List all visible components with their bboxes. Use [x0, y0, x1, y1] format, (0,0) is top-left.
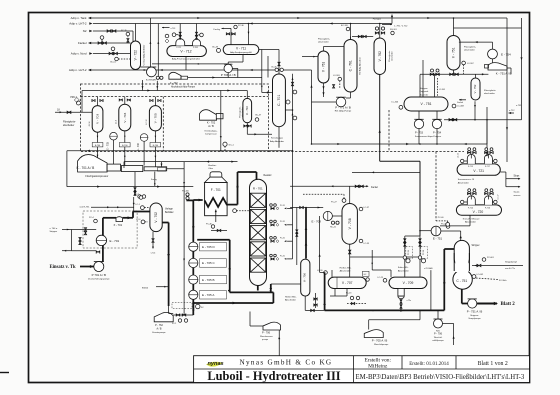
svg-text:Adip v. LHT-2: Adip v. LHT-2 [69, 22, 87, 26]
svg-text:Fackig: Fackig [214, 29, 221, 31]
svg-text:LC-30: LC-30 [317, 270, 323, 272]
compressor K-702 A/B [200, 110, 217, 121]
instrument LC-1 [141, 206, 145, 210]
instrument LC-35 [359, 239, 363, 243]
instrument LC-002 [472, 275, 476, 279]
P-706 wires2 [437, 310, 439, 319]
svg-text:von E-77x: von E-77x [505, 268, 516, 270]
P-762 discharge with valves [173, 314, 193, 316]
pump F-707 hochdruck [169, 72, 181, 79]
vessel V-761 [318, 51, 329, 83]
pump P-706 waschwasser [263, 322, 281, 330]
P-705 wires [368, 320, 370, 330]
dashed boxes PC-39 PC-38 [406, 247, 413, 259]
E-754 wires [454, 27, 522, 29]
svg-text:Kalter MD-: Kalter MD- [398, 266, 409, 269]
FC-23 instruments [350, 296, 353, 299]
svg-text:Reaktor-: Reaktor- [208, 164, 217, 167]
exchanger E-701 [96, 235, 106, 245]
instrument EC-110 [346, 27, 350, 31]
C-701 overhead to riser [285, 109, 292, 111]
bold train outlet y303 [194, 302, 274, 304]
C-751 bottom bold [461, 289, 463, 303]
svg-text:PC-31: PC-31 [280, 238, 285, 240]
title block [194, 356, 530, 383]
svg-text:X - 701: X - 701 [114, 223, 123, 227]
reactor bottom bold [257, 286, 259, 291]
svg-text:Ref. Adip-Pumpe: Ref. Adip-Pumpe [335, 110, 352, 113]
vessel V-712 [167, 46, 207, 57]
svg-text:GC-46: GC-46 [271, 67, 276, 69]
svg-text:V - 752: V - 752 [473, 84, 477, 93]
svg-text:PC-35: PC-35 [121, 30, 128, 32]
suction header to K-701 [67, 150, 293, 152]
svg-text:HD Adip-Absorber: HD Adip-Absorber [359, 57, 362, 75]
svg-text:v.701 A/B: v.701 A/B [424, 267, 433, 270]
vessel V-710 separator [243, 98, 252, 122]
svg-text:Flüssigkeits-: Flüssigkeits- [63, 121, 76, 124]
svg-text:EC-120: EC-120 [341, 25, 349, 27]
svg-text:P - 706: P - 706 [434, 333, 443, 336]
instrument MC-101 [391, 31, 394, 34]
svg-text:Einsatz v. Tk: Einsatz v. Tk [50, 265, 76, 270]
svg-text:E0000: E0000 [142, 288, 149, 290]
E-751 inlet [420, 230, 431, 232]
V-761 wires [323, 47, 325, 52]
svg-text:Heißes MD-: Heißes MD- [340, 268, 352, 270]
letdown instruments [403, 256, 406, 259]
bold stub to V-706 feed [270, 284, 272, 292]
furnace burner [215, 210, 217, 213]
V-707 bottom outlets [334, 289, 336, 297]
V-710 bottom valves [244, 125, 247, 127]
C-701 bottom wire [278, 127, 280, 148]
exchanger E - 705 D [189, 242, 198, 251]
reactor level instrument [233, 209, 237, 213]
instrument PRC-1 [76, 101, 80, 105]
C-751 top wire [460, 236, 462, 239]
svg-text:A / B: A / B [156, 327, 161, 330]
pump P-771 A/B [336, 97, 346, 107]
pump P-762 A/B [154, 312, 173, 321]
cooler E-754 [488, 49, 498, 59]
E-751 to stripper [441, 230, 461, 232]
compressor skid bars [107, 164, 121, 171]
svg-text:Sauer-: Sauer- [514, 191, 521, 194]
V-751 top wire [453, 18, 455, 36]
svg-text:EM-BP3\Daten\BP3 Betrieb\VISIO: EM-BP3\Daten\BP3 Betrieb\VISIO-Fließbild… [356, 374, 525, 381]
quench feed riser [292, 74, 294, 259]
svg-text:LC-17: LC-17 [498, 195, 500, 200]
svg-text:V - 707: V - 707 [342, 281, 353, 285]
svg-text:Flüssigkeits-: Flüssigkeits- [388, 50, 391, 61]
dashed link GC-1 [269, 151, 465, 153]
C-761 wires [350, 24, 352, 40]
svg-text:F-716: F-716 [485, 207, 490, 209]
svg-text:LC-15: LC-15 [457, 153, 459, 158]
V-720 side instruments [461, 200, 464, 203]
bold effluent top y240 [197, 239, 230, 241]
V-707 internals [336, 277, 338, 288]
svg-text:V - 709: V - 709 [403, 281, 414, 285]
svg-text:E - 751: E - 751 [433, 237, 443, 241]
V-702 drain [152, 232, 154, 239]
instrument LC-37 [359, 207, 363, 211]
svg-text:F-717: F-717 [485, 166, 490, 168]
V-721 top valve stacks [468, 151, 471, 153]
svg-text:FC-30ch: FC-30ch [499, 280, 507, 282]
bold effluent bottom y292 [230, 291, 274, 293]
svg-text:Flüssigkeits-: Flüssigkeits- [318, 38, 330, 41]
svg-text:Adip-Absorber: Adip-Absorber [270, 140, 284, 143]
svg-text:PC-31: PC-31 [280, 205, 285, 207]
pump P-708 A/B [224, 64, 232, 72]
svg-text:abscheider: abscheider [318, 41, 329, 44]
V-720 top valve stacks [468, 192, 471, 194]
column C-761 [344, 40, 357, 93]
svg-text:LC-305: LC-305 [439, 89, 445, 91]
V-751h LC-308 [452, 104, 456, 108]
V-712 nozzle bumps [176, 39, 185, 46]
V-707 inlet [331, 270, 333, 277]
svg-text:LC-307: LC-307 [467, 63, 474, 65]
svg-text:V - 705: V - 705 [153, 113, 157, 123]
svg-text:Stripper-: Stripper- [420, 87, 428, 90]
svg-text:v. 704 n.: v. 704 n. [50, 228, 59, 230]
svg-text:V - 722: V - 722 [134, 50, 138, 61]
svg-text:von E-751: von E-751 [80, 207, 91, 209]
svg-text:Heißer MD-: Heißer MD- [285, 296, 297, 299]
svg-text:E - 704: E - 704 [137, 142, 140, 150]
exchanger E-703 [110, 132, 118, 140]
svg-text:auffüllpumpe: auffüllpumpe [432, 340, 444, 342]
svg-text:C - 701: C - 701 [277, 95, 281, 106]
svg-text:E - 705 D: E - 705 D [202, 245, 216, 249]
svg-text:abscheider: abscheider [484, 92, 495, 95]
V-751 outlet wires [418, 111, 420, 119]
svg-text:Waschwasser-: Waschwasser- [260, 336, 273, 338]
E-709 fittings [156, 76, 159, 79]
svg-text:Frischgaskompressor: Frischgaskompressor [85, 175, 108, 178]
svg-text:Kreis-Fl./ Wasser: Kreis-Fl./ Wasser [463, 217, 480, 220]
n712 return arrow [509, 112, 512, 114]
svg-text:Stripper: Stripper [50, 230, 58, 233]
E-751 instrument PC-40 [446, 223, 450, 227]
vessel V-706 [301, 259, 310, 296]
svg-text:Slops: Slops [514, 176, 521, 178]
svg-text:Kreislaufgas: Kreislaufgas [271, 137, 284, 140]
instrument PC-2 [139, 196, 143, 200]
svg-text:V - 706: V - 706 [302, 273, 306, 282]
svg-text:RG-101: RG-101 [390, 29, 397, 31]
crossover y172 [352, 171, 420, 173]
svg-text:F - 707: F - 707 [170, 82, 178, 85]
fuel gas valve [217, 229, 221, 231]
vessel V-704 [119, 104, 131, 131]
E-709 riser right [157, 24, 159, 77]
wires above C-701 [259, 49, 279, 51]
svg-text:Erstellt: 01.01.2014: Erstellt: 01.01.2014 [409, 362, 449, 367]
svg-text:R - 701: R - 701 [253, 187, 263, 191]
V-708 bottom wire [349, 244, 351, 277]
svg-text:P - 771 A / B: P - 771 A / B [335, 105, 351, 109]
dashed divider x163 [162, 97, 164, 152]
svg-text:Sammler: Sammler [420, 93, 429, 96]
svg-text:abscheider: abscheider [63, 124, 74, 127]
right edge header [506, 18, 508, 162]
exchanger E - 705 A [189, 290, 198, 299]
P-708 discharge [227, 73, 229, 78]
C-701 side instrument [286, 100, 290, 104]
dashed LC-305 [437, 78, 439, 96]
svg-text:PC-100: PC-100 [182, 191, 190, 193]
vessel V-707 [328, 277, 366, 288]
vessel V-721 [457, 164, 500, 175]
svg-text:MiHeinz: MiHeinz [368, 364, 388, 370]
V-762 top valves [379, 24, 381, 39]
svg-text:E - 705 C: E - 705 C [202, 261, 216, 265]
wire P-771 riser [311, 70, 313, 102]
reactor beds [250, 193, 265, 207]
instrument PC-27 [303, 193, 344, 195]
instrument LC-307 [462, 61, 466, 65]
svg-text:LC-002: LC-002 [477, 274, 484, 276]
junction dots [193, 302, 195, 304]
V-702 bold outlet [162, 222, 168, 224]
svg-text:nynas: nynas [208, 361, 224, 367]
instrument PC-4 [94, 219, 98, 223]
wire V-722 top [135, 24, 137, 42]
svg-text:GC-1: GC-1 [229, 145, 235, 147]
instrument GC-48 [217, 48, 221, 52]
E-709 riser left [149, 18, 151, 67]
V-704 bottom [124, 131, 126, 143]
vessel V-702 [150, 203, 162, 232]
svg-text:V - 721: V - 721 [473, 169, 484, 173]
Adip n. LHT-2 line [89, 69, 312, 71]
column C-701 [273, 74, 286, 127]
svg-text:Blatt 1 von 2: Blatt 1 von 2 [478, 361, 508, 367]
V-751 bottom header [453, 70, 455, 74]
steam inlet [472, 265, 523, 267]
drain header y119 [444, 119, 522, 121]
slops outlet lines [500, 171, 506, 173]
P-706 wire [278, 330, 280, 356]
svg-text:Hochdruck Adip-Pumpe: Hochdruck Adip-Pumpe [171, 85, 196, 88]
V-751 top crossover [459, 41, 493, 43]
svg-text:Druckerhöhungspumpe: Druckerhöhungspumpe [88, 278, 110, 281]
svg-text:abscheider: abscheider [242, 107, 244, 117]
V-709 boot [398, 289, 404, 297]
svg-text:PC-31: PC-31 [280, 255, 285, 257]
Fackel line [89, 42, 131, 44]
main feed bold riser [192, 299, 194, 311]
recycle line bottom [67, 186, 193, 188]
wire to V-721 [486, 120, 488, 144]
V-706 vapor riser [305, 208, 307, 259]
V-711 outlet to pump [242, 55, 244, 63]
svg-text:LC-308: LC-308 [457, 106, 464, 108]
pump P-701 A/B [94, 262, 104, 272]
svg-text:LC-303: LC-303 [333, 75, 340, 77]
svg-text:P - 705 A / B: P - 705 A / B [372, 339, 388, 343]
svg-text:Waschölpumpe: Waschölpumpe [374, 344, 389, 346]
svg-text:V - 762: V - 762 [378, 51, 382, 62]
instrument LC-306 [399, 105, 403, 109]
E-708 fittings [331, 221, 334, 224]
V-712 right riser valves [196, 24, 198, 40]
svg-text:Blatt 2: Blatt 2 [501, 302, 516, 307]
svg-text:Adip n. Tank: Adip n. Tank [71, 16, 87, 20]
svg-text:Behälter: Behälter [165, 211, 174, 214]
filter X-701 [116, 217, 123, 222]
V-721 side instruments [461, 159, 464, 162]
svg-text:Flüssigkeits-: Flüssigkeits- [484, 89, 496, 92]
svg-text:V - 751: V - 751 [452, 47, 456, 58]
vessel V-705 [149, 106, 161, 131]
svg-text:PC-39: PC-39 [408, 250, 410, 255]
svg-text:V - 711: V - 711 [236, 46, 246, 50]
page edge tick [0, 372, 9, 374]
svg-text:GC-51: GC-51 [110, 62, 117, 64]
svg-text:K - 751 A / B: K - 751 A / B [496, 72, 512, 76]
svg-text:PC-38: PC-38 [423, 250, 425, 255]
svg-text:abscheider: abscheider [392, 51, 394, 61]
V-708 relief to fackel [349, 186, 351, 203]
svg-text:n. 781 / n.712: n. 781 / n.712 [394, 26, 408, 28]
svg-text:PC-27: PC-27 [331, 201, 338, 203]
vessel V-711 [223, 45, 259, 55]
svg-text:V - 710: V - 710 [245, 106, 249, 115]
exchanger E - 705 C [189, 258, 198, 267]
svg-text:Umlauf Adip-Behälter: Umlauf Adip-Behälter [143, 44, 146, 65]
svg-text:P-708: P-708 [193, 47, 198, 49]
header line y23.5 [93, 23, 392, 25]
svg-text:n.712: n.712 [509, 110, 515, 112]
pump P-753 [414, 119, 423, 128]
svg-text:A / B: A / B [208, 124, 214, 128]
N2 line [93, 30, 133, 32]
V-706 wires [304, 296, 306, 310]
V-752 bottom drain [474, 101, 476, 119]
svg-text:Fackel: Fackel [457, 102, 463, 104]
svg-text:V - 703: V - 703 [96, 114, 100, 124]
svg-text:K - 701 A / B: K - 701 A / B [77, 166, 95, 170]
connector stub [161, 162, 163, 167]
V-712 left riser valves [179, 24, 181, 40]
dashed enclosure compressor section [81, 84, 269, 152]
svg-text:RC-41: RC-41 [330, 227, 337, 229]
svg-text:GC-47: GC-47 [255, 115, 262, 117]
exchanger E-704 [140, 134, 148, 142]
pump P-751 A/B [468, 299, 477, 308]
blower K-751 A/B [488, 63, 507, 70]
reactor R-701 [250, 179, 267, 285]
svg-text:n.751: n.751 [516, 105, 522, 107]
pump discharge header [418, 129, 420, 144]
n781 arrow [390, 24, 392, 26]
svg-text:PC-001: PC-001 [487, 257, 495, 259]
svg-text:F-714: F-714 [468, 207, 473, 209]
svg-text:Nynas GmbH & Co KG: Nynas GmbH & Co KG [240, 359, 333, 367]
svg-text:E - 705 A: E - 705 A [202, 293, 214, 297]
V-705 bottom [154, 131, 156, 143]
stripper C-751 top [453, 270, 472, 289]
svg-text:Vorlage: Vorlage [165, 208, 174, 211]
wire V-712 drop [185, 57, 187, 71]
svg-text:Adip n. LHT-2: Adip n. LHT-2 [69, 68, 87, 72]
svg-text:Reaktor: Reaktor [264, 174, 272, 177]
svg-text:FC-2: FC-2 [172, 323, 176, 325]
second crossover line [124, 161, 238, 163]
cooler E-751 [431, 226, 441, 236]
svg-text:Fackg: Fackg [151, 179, 158, 181]
V-752 wires [475, 74, 477, 78]
svg-text:Waschöl-: Waschöl- [434, 337, 443, 339]
nynas logo [206, 362, 223, 367]
svg-text:abscheider: abscheider [464, 49, 475, 52]
K-751 wires [507, 67, 511, 69]
fackel relief under skid [134, 172, 136, 196]
pump E-709 umwaelz [147, 67, 157, 77]
svg-text:E - 701: E - 701 [110, 239, 120, 243]
V-761 feed arrow [302, 56, 318, 58]
svg-text:Abscheider: Abscheider [340, 270, 351, 273]
K-702 discharge [220, 91, 222, 151]
bold riser x444 [443, 249, 445, 310]
svg-text:E - 705 B: E - 705 B [202, 278, 215, 282]
svg-text:Flüssigkeits-: Flüssigkeits- [464, 46, 476, 49]
svg-text:Fackel: Fackel [78, 41, 87, 45]
V-761 outlet valve [333, 85, 335, 88]
vessel V-703 [92, 106, 103, 133]
wire x268 extension [267, 56, 269, 78]
svg-text:Einsatzpumpe: Einsatzpumpe [152, 331, 166, 334]
V-709 boot valves [400, 299, 402, 311]
svg-text:pumpe: pumpe [262, 339, 269, 341]
dashed instrument box feed [83, 211, 137, 248]
svg-text:Abscheider: Abscheider [285, 299, 296, 302]
vessel V-762 [374, 38, 386, 75]
instrument LC-4 [141, 220, 145, 224]
outlet arrow left [62, 250, 72, 252]
dashed instrument runs right [388, 110, 390, 152]
svg-text:Adip-Feedpumpengefäß: Adip-Feedpumpengefäß [230, 51, 252, 54]
svg-text:V - 761: V - 761 [322, 62, 326, 73]
wire V-752 outlet to header [486, 107, 488, 144]
svg-text:Abscheider: Abscheider [458, 181, 469, 184]
svg-text:N2: N2 [83, 29, 87, 33]
svg-text:FC-23: FC-23 [346, 293, 351, 295]
svg-text:Abscheider: Abscheider [465, 221, 476, 224]
pump P-705 A/B [364, 330, 383, 338]
instrument LC-303 [338, 77, 342, 81]
svg-text:F - 701: F - 701 [211, 188, 221, 192]
svg-text:P-712: P-712 [176, 47, 181, 49]
V-707 side valves [314, 298, 317, 300]
svg-text:C - 761: C - 761 [349, 60, 353, 71]
wire top header y90.5 [82, 90, 247, 92]
svg-text:Fackel: Fackel [371, 187, 378, 189]
svg-text:GC-48: GC-48 [212, 47, 219, 49]
svg-text:LC-37: LC-37 [364, 207, 370, 209]
svg-text:V - 720: V - 720 [473, 210, 484, 214]
svg-text:Luboil - Hydrotreater III: Luboil - Hydrotreater III [207, 369, 340, 383]
svg-text:E - 703: E - 703 [107, 141, 110, 149]
svg-text:Stripper: Stripper [472, 244, 480, 247]
V-712 side instruments [165, 34, 169, 38]
wire V-711 feed drop [248, 24, 250, 45]
